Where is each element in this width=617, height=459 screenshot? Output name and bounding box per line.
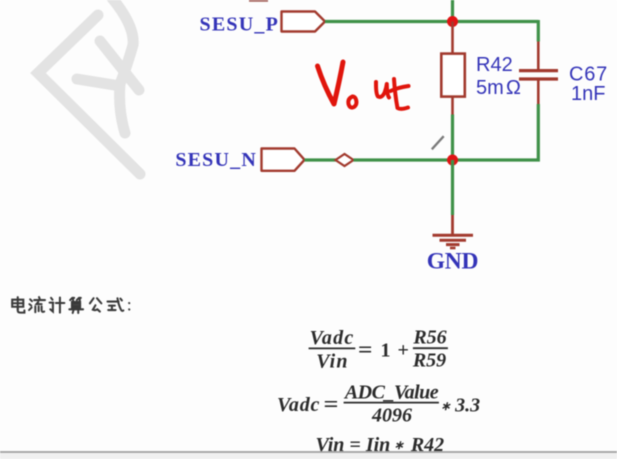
wire capacitor to bottom node [453,104,539,160]
svg-text:ADC_Value: ADC_Value [343,381,439,403]
svg-text:GND: GND [427,249,479,275]
wire node Vout to capacitor branch [537,20,540,42]
svg-text:Vadc: Vadc [310,327,355,349]
cropped element at top edge [249,0,268,2]
svg-text:SESU_P: SESU_P [200,14,279,36]
wire marker to bottom node [354,158,453,161]
bottom divider band [0,451,617,453]
ground GND [427,215,479,275]
svg-text:R42: R42 [476,54,513,76]
resistor R42 5mOhm [441,22,521,115]
capacitor C67 1nF [519,42,608,106]
junction node Vout [447,16,458,27]
svg-text:=: = [358,337,373,362]
svg-text:Vin: Vin [316,351,349,373]
port SESU_P [200,12,325,36]
svg-text:SESU_N: SESU_N [175,149,257,171]
svg-text:R56: R56 [412,327,446,349]
svg-text:5mΩ: 5mΩ [476,77,521,99]
wire SESU_P to node Vout [325,20,538,23]
wire resistor to bottom node [451,115,454,161]
wire bottom node to ground [451,160,454,215]
svg-text:Vadc: Vadc [277,394,320,416]
svg-text:=: = [324,391,339,416]
svg-text:R59: R59 [412,350,446,372]
formula 3: Vin = Iin * R42 [316,434,445,456]
svg-text:1nF: 1nF [571,83,605,105]
port SESU_N [175,149,304,172]
formula 2: Vadc = ADC_Value/4096 * 3.3 [277,381,480,426]
differential pair marker [336,154,354,166]
wire net Vout: top vertical stub [451,0,454,22]
svg-text:1 +: 1 + [381,340,410,362]
heading: current calculation formula (Chinese) [12,297,129,313]
wire SESU_N to marker [305,158,337,161]
annotation Vout handwritten [318,62,409,109]
no-ERC slash marker [432,136,444,149]
formula 1: Vadc/Vin = 1 + R56/R59 [309,327,448,373]
svg-text:4096: 4096 [371,405,412,427]
junction node bottom [447,155,458,166]
